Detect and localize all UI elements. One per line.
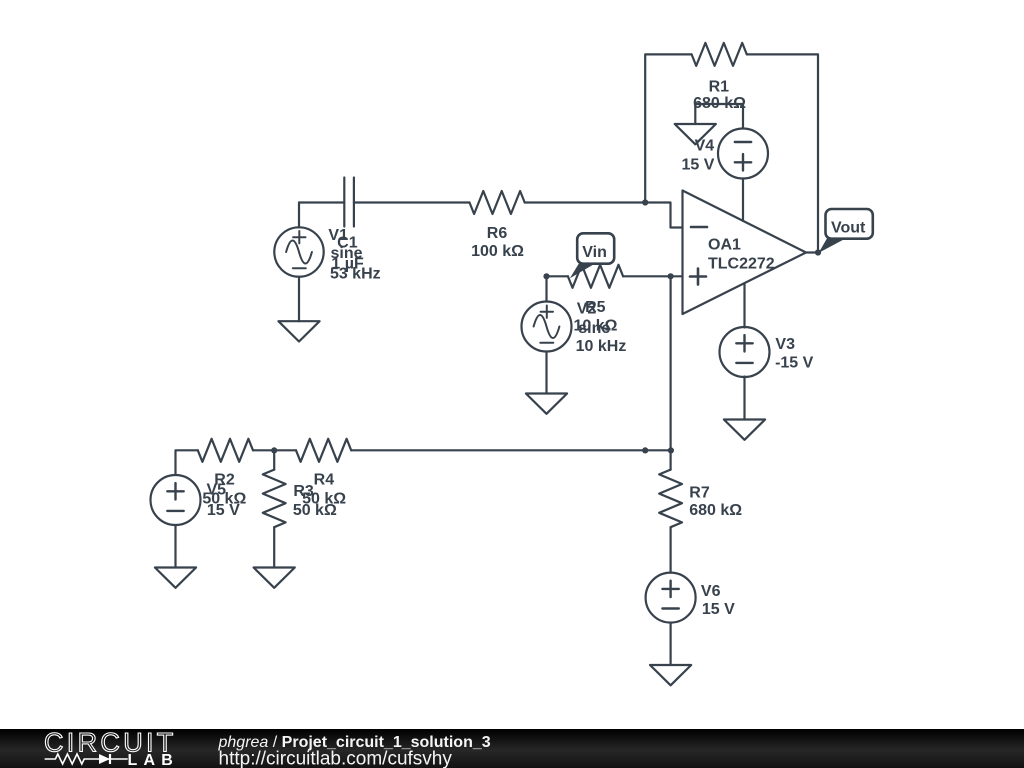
svg-text:OA1: OA1 — [708, 237, 741, 254]
svg-text:50 kΩ: 50 kΩ — [293, 502, 337, 519]
svg-text:Vout: Vout — [831, 220, 866, 237]
svg-text:100 kΩ: 100 kΩ — [471, 243, 524, 260]
svg-text:680 kΩ: 680 kΩ — [689, 502, 742, 519]
svg-text:LAB: LAB — [128, 752, 179, 768]
svg-text:V4: V4 — [695, 138, 715, 155]
svg-text:10 kΩ: 10 kΩ — [574, 317, 618, 334]
svg-text:R7: R7 — [689, 485, 710, 502]
svg-text:V3: V3 — [775, 336, 795, 353]
svg-text:R1: R1 — [709, 79, 730, 96]
svg-text:-15 V: -15 V — [775, 354, 814, 371]
svg-text:15 V: 15 V — [702, 601, 735, 618]
svg-text:R6: R6 — [487, 225, 508, 242]
svg-text:TLC2272: TLC2272 — [708, 256, 775, 273]
svg-text:680 kΩ: 680 kΩ — [693, 95, 746, 112]
svg-text:R4: R4 — [314, 472, 335, 489]
svg-text:15 V: 15 V — [207, 502, 240, 519]
svg-text:R5: R5 — [585, 299, 606, 316]
svg-text:V6: V6 — [701, 583, 721, 600]
svg-text:http://circuitlab.com/cufsvhy: http://circuitlab.com/cufsvhy — [219, 749, 453, 768]
svg-text:53 kHz: 53 kHz — [330, 266, 381, 283]
svg-text:15 V: 15 V — [682, 157, 715, 174]
svg-text:Vin: Vin — [582, 244, 607, 261]
svg-text:10 kHz: 10 kHz — [576, 338, 627, 355]
